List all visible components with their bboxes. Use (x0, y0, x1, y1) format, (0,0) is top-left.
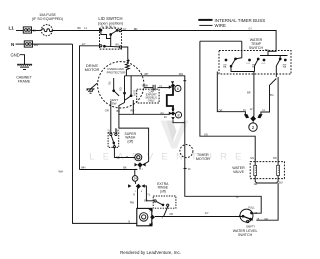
svg-text:FULL: FULL (248, 206, 255, 210)
svg-text:BN: BN (273, 157, 277, 160)
svg-text:29: 29 (164, 116, 167, 119)
wire junction to extra rinse switch (144, 186, 154, 202)
water level switch S6 (233, 206, 268, 237)
svg-text:N: N (11, 42, 15, 47)
terminal L1 (9, 26, 42, 34)
extra rinse switch S4 (153, 182, 176, 216)
svg-text:2: 2 (252, 125, 255, 130)
svg-text:C-C: C-C (246, 63, 250, 65)
connector 5 (135, 154, 146, 171)
svg-text:BU: BU (109, 81, 112, 85)
water valve V1 (232, 160, 284, 187)
svg-text:GND: GND (11, 53, 20, 58)
connector 14 (132, 176, 138, 184)
lid switch S1 (78, 16, 124, 49)
svg-text:OR: OR (169, 213, 173, 216)
svg-text:RD: RD (120, 87, 123, 91)
ground at drive motor (87, 83, 98, 93)
svg-text:(open position): (open position) (98, 22, 124, 26)
pump P1 (137, 208, 155, 225)
wire temp switch common branch to water valve cold coil (200, 41, 255, 160)
svg-text:BR: BR (247, 92, 251, 95)
wire motor BK down to junction (119, 94, 149, 165)
wire temp switch pin CW to connector 2 pin 13 (217, 72, 246, 115)
svg-text:SWITCH: SWITCH (238, 233, 253, 237)
internal timer buss 6 to 8 (167, 87, 173, 111)
wire lid switch lower-right down to drive motor BU (122, 47, 128, 59)
svg-text:BK: BK (116, 129, 120, 132)
svg-text:(off): (off) (160, 189, 166, 193)
svg-text:L1: L1 (84, 26, 87, 30)
wire GY rail bottom to junction under connector 5 (80, 166, 138, 170)
fuse F1 (32, 13, 100, 36)
super wash switch S3 (107, 128, 136, 159)
svg-text:GR: GR (264, 218, 268, 221)
svg-text:14: 14 (133, 177, 137, 181)
wire temp switch HW down to water valve hot coil (273, 77, 278, 160)
svg-text:N: N (133, 194, 135, 197)
svg-text:(off): (off) (127, 139, 133, 143)
svg-text:GN: GN (250, 157, 254, 160)
wire motor WH to timer motor rail (125, 72, 187, 145)
wire junction down to pump (130, 188, 138, 208)
svg-text:BU: BU (270, 94, 274, 97)
node junction under connector 5 (137, 162, 142, 169)
wire temp switch pin HW BU to connector 2 pin 11 (261, 79, 276, 115)
wire temp switch pin WW to connector 2 pin 12 (247, 72, 254, 117)
svg-text:ONLY: ONLY (148, 99, 155, 103)
wire N rail down to pump box (59, 44, 137, 224)
svg-text:BK: BK (78, 26, 82, 30)
svg-text:YL: YL (147, 194, 151, 197)
wire pump output to water level switch (155, 211, 243, 220)
svg-text:Rendered by LeadVenture, Inc.: Rendered by LeadVenture, Inc. (120, 250, 181, 255)
watermark (89, 121, 249, 163)
svg-text:BU: BU (279, 182, 283, 185)
terminal N (11, 41, 73, 47)
svg-text:BU: BU (116, 42, 120, 46)
wire lid switch output GY/RD to water temp switch (121, 27, 276, 53)
timer motor M2 (180, 145, 210, 171)
svg-text:6: 6 (177, 86, 180, 91)
wire lid switch lower-left to left rail GY (80, 42, 100, 169)
wire water valve common down to water level switch pin 15 (256, 183, 278, 220)
svg-text:6: 6 (141, 191, 143, 193)
wire motor OR down to super wash (110, 101, 112, 133)
connector 8 (169, 109, 185, 123)
svg-text:WH: WH (81, 166, 85, 170)
cabinet frame ground (11, 53, 33, 84)
wire motor RD to connector 8 (105, 100, 169, 119)
svg-text:OR: OR (105, 109, 109, 113)
svg-text:BK: BK (117, 109, 121, 113)
wire timer motor YL to water level switch full contact (185, 145, 261, 214)
svg-text:RD: RD (131, 109, 135, 113)
svg-text:7: 7 (142, 169, 144, 171)
svg-text:VALVE: VALVE (233, 170, 245, 174)
svg-text:SWITCH: SWITCH (249, 46, 264, 50)
connector 2 (244, 114, 263, 131)
svg-text:BK: BK (33, 29, 37, 33)
svg-text:7: 7 (162, 217, 164, 220)
svg-text:BK: BK (123, 166, 127, 170)
svg-text:8: 8 (177, 112, 180, 117)
svg-text:WH: WH (34, 43, 38, 47)
svg-text:7: 7 (149, 211, 151, 213)
svg-text:AGIT: AGIT (133, 90, 136, 96)
svg-text:WH: WH (59, 169, 63, 173)
svg-text:RW: RW (130, 202, 135, 205)
svg-text:INTERNAL TIMER BUSS: INTERNAL TIMER BUSS (215, 18, 266, 23)
svg-text:LID SWITCH: LID SWITCH (98, 16, 122, 21)
svg-text:YL: YL (236, 195, 240, 199)
node drive motor feed junction (126, 59, 129, 62)
wire motor YL/BK to capacitor and connector 6 (142, 84, 170, 87)
svg-text:EMPTY: EMPTY (246, 225, 255, 229)
svg-text:FRAME: FRAME (18, 80, 31, 84)
water temp switch S5 (200, 38, 291, 77)
svg-text:C-C: C-C (262, 63, 266, 65)
legend internal timer buss (198, 18, 265, 23)
drive motor M1 (85, 62, 144, 108)
svg-text:12: 12 (250, 108, 253, 111)
svg-text:L1: L1 (9, 26, 15, 31)
svg-text:SW: SW (112, 102, 117, 106)
svg-text:16: 16 (188, 168, 191, 171)
svg-text:MOTOR: MOTOR (85, 67, 100, 72)
svg-text:GY: GY (205, 211, 209, 215)
node junction under connector 14 (128, 184, 145, 193)
wire junction to connector 14 (134, 170, 136, 176)
svg-text:YL/BK: YL/BK (142, 84, 149, 87)
svg-text:LEADVENTURE: LEADVENTURE (89, 152, 249, 163)
svg-text:(IF SO EQUIPPED): (IF SO EQUIPPED) (32, 17, 63, 21)
svg-text:GN: GN (204, 133, 208, 136)
connector 6 (169, 81, 181, 91)
legend wire (199, 23, 226, 28)
svg-text:GN: GN (254, 183, 258, 186)
svg-text:PROTECTOR: PROTECTOR (107, 70, 127, 74)
svg-text:MOTOR: MOTOR (196, 157, 210, 161)
svg-text:WIRE: WIRE (215, 23, 227, 28)
capacitor C1 (export models) (137, 85, 159, 103)
